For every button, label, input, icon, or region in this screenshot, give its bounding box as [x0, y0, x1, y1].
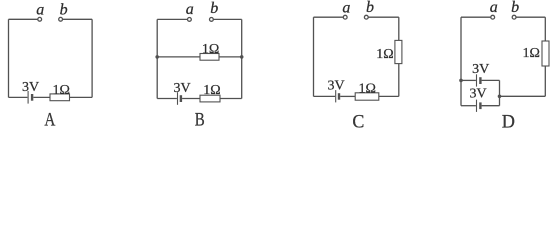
- circuit C vertical resistor box: [395, 40, 402, 63]
- circuit D output wire: [500, 95, 546, 97]
- circuit B terminal b: [210, 18, 214, 22]
- svg-text:D: D: [502, 112, 515, 131]
- svg-text:b: b: [366, 0, 374, 16]
- circuit D upper branch right wire: [482, 79, 500, 81]
- circuit C top-right wire: [368, 16, 399, 18]
- circuit C bottom-left wire: [314, 95, 336, 97]
- svg-text:3V: 3V: [472, 62, 489, 77]
- svg-text:1Ω: 1Ω: [358, 82, 375, 97]
- circuit D top-left wire: [461, 16, 491, 18]
- circuit A left wire: [8, 19, 10, 97]
- svg-text:1Ω: 1Ω: [202, 42, 219, 57]
- circuit A battery long plate: [27, 91, 29, 104]
- svg-text:b: b: [210, 0, 218, 17]
- circuit C terminal b: [364, 15, 368, 19]
- svg-text:1Ω: 1Ω: [52, 83, 69, 98]
- svg-text:1Ω: 1Ω: [376, 47, 393, 62]
- circuit C right upper wire: [398, 17, 400, 40]
- circuit C wire battery to resistor: [340, 95, 355, 97]
- circuit C left wire: [313, 17, 315, 96]
- circuit B right wire: [241, 19, 243, 98]
- circuit D battery-box right vertical wire: [499, 80, 501, 105]
- circuit D left wire: [460, 17, 462, 106]
- circuit B junction dot right: [240, 55, 244, 59]
- circuit D terminal b: [512, 15, 516, 19]
- circuit C bottom-right wire: [379, 95, 399, 97]
- circuit B bottom resistor box: [200, 95, 220, 102]
- circuit D junction dot left: [459, 79, 463, 83]
- circuit C right lower wire: [398, 64, 400, 97]
- circuit C battery long plate: [335, 90, 337, 102]
- circuit D right lower wire: [544, 66, 546, 96]
- svg-text:1Ω: 1Ω: [522, 46, 539, 61]
- svg-text:a: a: [186, 1, 194, 18]
- circuit B wire battery to resistor: [182, 98, 200, 100]
- circuit A terminal b: [59, 17, 63, 21]
- circuit C terminal a: [343, 15, 347, 19]
- circuit A top-left wire: [9, 18, 38, 20]
- circuit C bottom resistor box: [355, 93, 379, 100]
- circuit B bottom-right wire: [220, 98, 242, 100]
- svg-text:b: b: [60, 1, 68, 18]
- circuit D lower battery short plate: [479, 102, 481, 109]
- circuit B junction dot left: [155, 55, 159, 59]
- circuit D lower battery long plate: [476, 100, 478, 112]
- circuit A bottom-left wire: [9, 96, 28, 98]
- circuit D lower branch right wire: [482, 105, 500, 107]
- circuit D junction dot right: [498, 95, 502, 99]
- circuit D upper branch left wire: [461, 79, 476, 81]
- circuit B battery short plate: [180, 95, 182, 102]
- circuit D terminal a: [491, 15, 495, 19]
- svg-text:b: b: [511, 0, 519, 16]
- circuit D upper battery long plate: [476, 74, 478, 86]
- svg-text:B: B: [195, 110, 205, 131]
- circuit B middle-right wire: [219, 56, 242, 58]
- circuit A bottom-right wire: [70, 96, 93, 98]
- circuit D top-right wire: [516, 16, 545, 18]
- svg-text:a: a: [490, 0, 498, 16]
- circuit B left wire: [156, 19, 158, 98]
- svg-text:a: a: [342, 0, 350, 17]
- circuit A battery short plate: [31, 94, 33, 101]
- svg-text:3V: 3V: [470, 87, 487, 102]
- circuit B bottom-left wire: [157, 98, 177, 100]
- circuit A top-right wire: [63, 18, 93, 20]
- svg-text:3V: 3V: [327, 79, 344, 94]
- circuit B terminal a: [188, 18, 192, 22]
- circuit B top-left wire: [157, 18, 187, 20]
- circuit A wire battery to resistor: [33, 96, 50, 98]
- circuit A terminal a: [38, 17, 42, 21]
- circuit D upper battery short plate: [479, 77, 481, 84]
- circuit B top-right wire: [213, 18, 241, 20]
- svg-text:3V: 3V: [22, 80, 39, 95]
- circuit D right upper wire: [544, 17, 546, 41]
- circuit D vertical resistor box: [542, 41, 549, 66]
- circuit B middle-left wire: [157, 56, 200, 58]
- circuit A resistor R1 box: [50, 94, 70, 101]
- circuit B battery long plate: [177, 92, 179, 105]
- circuit A right wire: [91, 19, 93, 97]
- svg-text:C: C: [352, 112, 364, 131]
- svg-text:A: A: [44, 109, 55, 130]
- circuit B middle resistor box: [200, 54, 219, 61]
- svg-text:3V: 3V: [173, 81, 190, 96]
- svg-text:a: a: [36, 1, 44, 18]
- svg-text:1Ω: 1Ω: [203, 83, 220, 98]
- circuit D lower branch left wire: [461, 105, 476, 107]
- circuit C top-left wire: [314, 16, 344, 18]
- circuit C battery short plate: [338, 93, 340, 100]
